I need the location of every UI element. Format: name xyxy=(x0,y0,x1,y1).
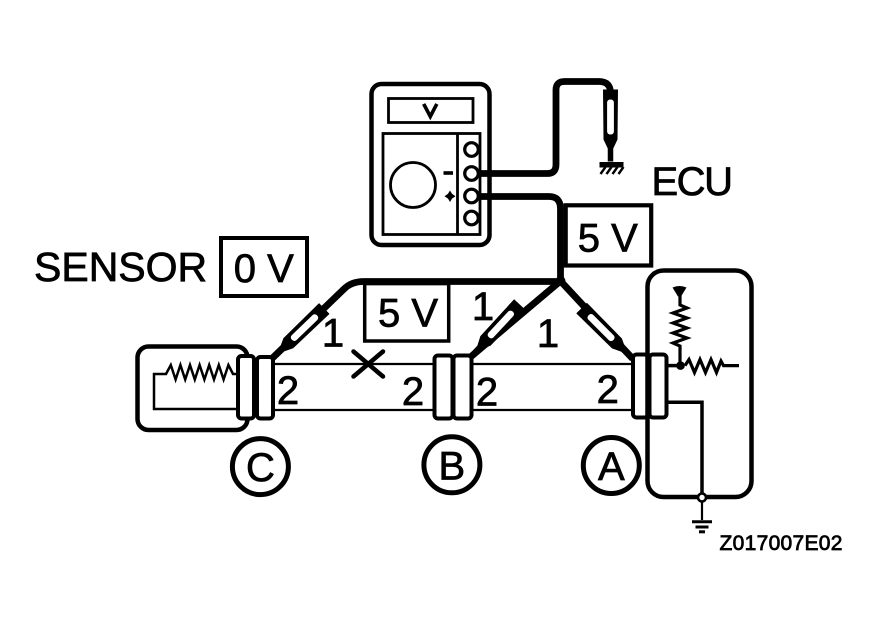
svg-text:Z017007E02: Z017007E02 xyxy=(720,532,843,555)
svg-text:2: 2 xyxy=(402,370,424,414)
ECU case ground circle xyxy=(698,494,706,502)
node A circle xyxy=(583,438,639,494)
terminal 4 xyxy=(465,211,479,225)
harness wire 2 bottom C-B xyxy=(272,409,435,411)
probe at B xyxy=(465,299,525,362)
X break mark xyxy=(354,352,384,377)
ECU series resistor horizontal xyxy=(685,360,739,373)
connector B bar 2 xyxy=(454,356,472,419)
0V box xyxy=(221,238,307,296)
svg-text:C: C xyxy=(246,446,275,490)
ground probe xyxy=(603,90,618,162)
wire junction to B probe xyxy=(471,281,561,357)
5V box right xyxy=(566,205,652,265)
connector C bar 1 xyxy=(238,356,254,419)
probe at A xyxy=(576,303,638,365)
svg-text:SENSOR: SENSOR xyxy=(34,244,207,290)
sensor box xyxy=(138,347,248,431)
wire from minus terminal to ground probe xyxy=(472,82,611,174)
svg-text:1: 1 xyxy=(322,312,344,356)
terminal 1 xyxy=(465,143,479,157)
multimeter display xyxy=(389,99,474,123)
svg-text:2: 2 xyxy=(277,369,299,413)
svg-text:1: 1 xyxy=(472,285,494,329)
5V box left xyxy=(365,284,449,341)
connector A bar 1 xyxy=(633,355,648,418)
sensor resistor xyxy=(154,365,238,409)
ECU pull-up resistor vertical xyxy=(673,294,687,364)
multimeter body xyxy=(372,84,490,245)
harness wire 1 top B-A xyxy=(471,363,634,365)
svg-text:0 V: 0 V xyxy=(234,247,294,291)
panel divider xyxy=(456,134,459,235)
connector A bar 2 xyxy=(650,355,667,418)
svg-text:B: B xyxy=(439,444,466,488)
svg-text:5 V: 5 V xyxy=(378,292,438,336)
multimeter panel xyxy=(383,134,480,235)
svg-text:ECU: ECU xyxy=(652,160,732,204)
ECU box xyxy=(648,271,752,498)
minus mark xyxy=(444,171,454,175)
ECU ground wire from A xyxy=(667,402,702,494)
harness wire 2 bottom B-A xyxy=(471,409,634,411)
display V symbol xyxy=(425,106,437,117)
ECU node dot xyxy=(676,361,685,370)
wire junction to C probe xyxy=(273,282,561,359)
dial xyxy=(391,163,436,208)
svg-text:5 V: 5 V xyxy=(578,217,638,261)
ground under probe xyxy=(600,165,624,174)
terminal 3 xyxy=(465,189,479,203)
node C circle xyxy=(232,439,288,495)
junction knot xyxy=(556,276,566,286)
svg-text:1: 1 xyxy=(537,312,559,356)
svg-text:2: 2 xyxy=(597,368,619,412)
ECU supply symbol xyxy=(673,286,687,297)
plus star mark xyxy=(445,191,456,203)
svg-text:A: A xyxy=(598,445,625,489)
probe at C xyxy=(267,303,329,364)
node B circle xyxy=(424,437,480,493)
ground stem xyxy=(701,502,703,521)
wire from plus terminal down to junction xyxy=(472,197,561,282)
svg-text:2: 2 xyxy=(476,371,498,415)
wire junction to A probe xyxy=(561,281,633,359)
connector C bar 2 xyxy=(257,357,273,419)
ECU wire A to node xyxy=(667,364,680,368)
ground symbol xyxy=(692,522,712,532)
terminal 2 xyxy=(465,167,479,181)
connector B bar 1 xyxy=(435,356,453,419)
harness wire 1 top C-B xyxy=(272,363,435,365)
